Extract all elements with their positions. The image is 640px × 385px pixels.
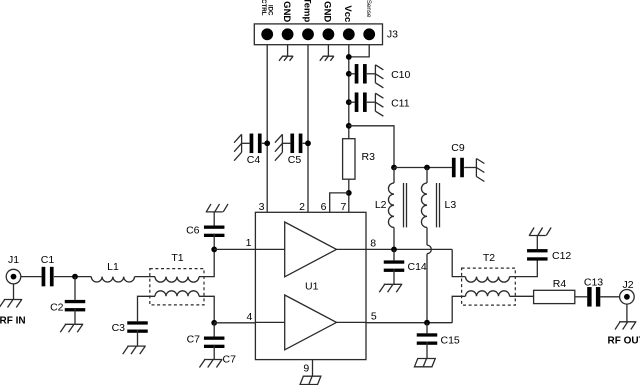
svg-text:T2: T2 (483, 252, 495, 264)
svg-text:Sense: Sense (365, 0, 372, 18)
svg-text:5: 5 (371, 310, 377, 322)
wire C2 to ground (74, 308, 76, 324)
resistor R3 (343, 139, 355, 180)
svg-text:Temp: Temp (301, 0, 312, 22)
wire ground to C6 (213, 212, 215, 226)
ground C9 (476, 159, 484, 182)
pin number 4 (246, 311, 252, 323)
svg-text:L1: L1 (107, 261, 119, 273)
wire R4 to C13 (575, 296, 587, 298)
wire to U1 pin1 (214, 248, 255, 250)
wire J1 to C1 (21, 276, 42, 278)
inductor L1 (91, 277, 134, 282)
label J1 (8, 254, 19, 266)
svg-text:CTRL: CTRL (260, 0, 267, 16)
inductor L2 (388, 183, 394, 227)
svg-text:J2: J2 (622, 279, 633, 291)
ground J3 pin2 (279, 56, 293, 61)
wire L2 to pin8 net (393, 227, 395, 249)
wire ground to C5 (282, 142, 290, 144)
label R3 (362, 151, 376, 163)
label C5 (288, 154, 302, 166)
wire to C14 (393, 249, 395, 260)
svg-text:RF IN: RF IN (0, 316, 26, 327)
svg-text:C6: C6 (186, 225, 200, 237)
ground C7 (199, 360, 222, 368)
svg-text:C5: C5 (288, 154, 302, 166)
ground C10 (375, 65, 383, 88)
label J3 (387, 29, 398, 41)
wire hop over pin8 net (427, 245, 431, 254)
J3 pin 5 (343, 28, 355, 40)
svg-text:R3: R3 (362, 151, 376, 163)
label C13 (584, 277, 603, 289)
wire to L3 coil (426, 168, 428, 184)
pin number 5 (371, 310, 377, 322)
T1 primary winding (155, 277, 199, 283)
ground U1 pin9 (300, 376, 321, 384)
inductor L3 (421, 183, 427, 227)
wire C10 to ground (367, 73, 376, 75)
label J2 (622, 279, 633, 291)
ground C15 (414, 359, 435, 367)
J3 pin 4 (323, 28, 335, 40)
wire C1 to L1 (54, 276, 91, 278)
wire U1 output B internal (337, 321, 367, 323)
wire C7 to ground (213, 345, 215, 360)
wire U1 input B internal (255, 321, 284, 323)
wire pin8 net to T2 primary (452, 249, 465, 276)
junction Sense-Vcc (346, 54, 352, 60)
U1 amplifier B (285, 295, 337, 350)
J3 pin 3 (302, 28, 314, 40)
svg-text:3: 3 (259, 201, 265, 213)
wire to C10 (349, 73, 355, 75)
wire J3 pin4 to ground (327, 45, 329, 57)
connector J1 (6, 269, 21, 284)
wire ground to C4 (242, 142, 250, 144)
capacitor C14 (384, 260, 405, 272)
wire J2 to ground (626, 304, 628, 322)
wire U1 pin9 to ground (312, 360, 314, 377)
svg-text:9: 9 (303, 363, 309, 375)
svg-text:C9: C9 (451, 142, 465, 154)
svg-text:1: 1 (246, 237, 252, 249)
label C12 (552, 250, 571, 262)
label C1 (41, 254, 55, 266)
ground J3 pin4 (320, 56, 334, 61)
svg-text:7: 7 (340, 201, 346, 213)
label L1 (107, 261, 119, 273)
svg-text:R4: R4 (553, 278, 567, 290)
transformer T1 box (150, 269, 204, 305)
wire T1 secondary to pin4 net (199, 296, 214, 323)
svg-text:C7: C7 (187, 333, 201, 345)
svg-text:GND: GND (281, 1, 292, 22)
capacitor C6 (204, 226, 225, 238)
label C6 (186, 225, 200, 237)
capacitor C4 (250, 134, 262, 154)
wire T1 secondary to C3 (138, 296, 156, 321)
svg-text:C1: C1 (41, 254, 55, 266)
label L2 (375, 199, 387, 211)
wire to L2 coil (393, 168, 395, 184)
label C11 (391, 97, 410, 109)
ground C12 (529, 228, 551, 236)
T2 primary winding (466, 277, 510, 283)
capacitor C11 (355, 92, 367, 112)
wire U1 pin6 jog (330, 193, 349, 212)
wire U1 pin8 net (366, 248, 452, 250)
wire L3 down upper (426, 227, 428, 245)
J3 pin 2 (282, 28, 294, 40)
label C3 (112, 322, 126, 334)
svg-text:C2: C2 (50, 302, 64, 314)
transformer T2 box (462, 268, 516, 305)
IC U1 body (255, 212, 366, 359)
L3 core lines (437, 183, 440, 227)
J3 pin 2 name GND (281, 1, 292, 22)
svg-text:C15: C15 (441, 335, 460, 347)
J3 pin 1 (261, 28, 273, 40)
connector J3 (254, 24, 382, 45)
pin number 3 (259, 201, 265, 213)
capacitor C9 (452, 158, 464, 178)
ground J1 (0, 300, 22, 308)
wire C9 to ground (464, 167, 476, 169)
svg-text:L2: L2 (375, 199, 387, 211)
capacitor C1 (42, 267, 54, 287)
wire J3 pin5 Vcc down to R3 (348, 45, 350, 139)
wire C11 to ground (367, 101, 376, 103)
junction pin5-L3-C15 (424, 320, 430, 326)
J3 pin 5 name Vcc (342, 5, 353, 22)
svg-text:GND: GND (322, 1, 333, 22)
wire to C11 (349, 101, 355, 103)
wire T2 secondary to R4 (510, 295, 534, 297)
junction C2 (72, 274, 78, 280)
resistor R4 (534, 290, 575, 303)
junction C10 (346, 71, 352, 77)
label C10 (391, 69, 410, 81)
U1 amplifier A (285, 222, 337, 277)
label RF OUT (608, 336, 640, 347)
J3 pin 6 name Sense (365, 0, 372, 18)
pin number 6 (321, 201, 327, 213)
label T1 (171, 252, 183, 264)
wire L1 to T1 (135, 276, 156, 278)
wire C15 to ground (426, 342, 428, 359)
svg-text:C12: C12 (552, 250, 571, 262)
ground C14 (379, 284, 402, 292)
wire J3 pin2 to ground (287, 45, 289, 57)
ground J2 (615, 322, 636, 330)
pin number 1 (246, 237, 252, 249)
pin number 7 (340, 201, 346, 213)
wire to C2 (74, 277, 76, 300)
svg-text:J1: J1 (8, 254, 19, 266)
label L3 (445, 199, 457, 211)
label C15 (441, 335, 460, 347)
wire J1 to ground (13, 284, 15, 300)
capacitor C5 (290, 134, 302, 154)
wire J3 pin1 to U1 pin3 (266, 45, 268, 213)
wire T2 primary to C12 (510, 260, 538, 277)
J3 pin 4 name GND (322, 1, 333, 22)
pin number 2 (299, 201, 305, 213)
junction pin8-L2-C14 (391, 247, 397, 253)
svg-text:Vcc: Vcc (342, 5, 353, 22)
svg-text:C14: C14 (408, 261, 427, 273)
svg-text:J3: J3 (387, 29, 398, 41)
J3 pin 1 name CTRL (260, 0, 267, 16)
wire R3 to U1 pin7 (348, 179, 350, 212)
wire C14 to ground (393, 269, 395, 285)
wire L3 to pin5 net (426, 254, 428, 323)
label C7 duplicate (223, 354, 237, 366)
ground C11 (375, 93, 383, 116)
svg-text:C11: C11 (391, 97, 410, 109)
junction pin1 net (211, 247, 217, 253)
pin number 9 (303, 363, 309, 375)
svg-text:L3: L3 (445, 199, 457, 211)
label U1 (305, 281, 319, 293)
ground C3 (123, 346, 146, 354)
label RF IN (0, 316, 26, 327)
wire C13 to J2 (600, 296, 619, 298)
svg-text:T1: T1 (171, 252, 183, 264)
label C4 (247, 154, 261, 166)
label C9 (451, 142, 465, 154)
junction pin6-pin7 (346, 190, 352, 196)
wire C6 to pin1 net (213, 234, 215, 250)
wire Vcc branch to L2 (349, 126, 394, 168)
label C14 (408, 261, 427, 273)
capacitor C12 (527, 249, 548, 260)
wire C4 to pin3 net (262, 142, 267, 144)
capacitor C15 (417, 333, 438, 345)
L2 core lines (404, 183, 407, 227)
ground C2 (60, 324, 83, 332)
label T2 (483, 252, 495, 264)
wire to C7 (213, 323, 215, 337)
capacitor C7 (204, 337, 225, 349)
svg-text:4: 4 (246, 311, 252, 323)
junction C11 (346, 99, 352, 105)
svg-text:RF OUT: RF OUT (608, 336, 640, 347)
label C2 (50, 302, 64, 314)
wire U1 input A internal (255, 248, 284, 250)
junction C4 (264, 140, 270, 146)
wire U1 pin5 net (366, 322, 452, 324)
svg-text:U1: U1 (305, 281, 319, 293)
wire J3 pin6 Sense to Vcc (349, 45, 369, 57)
wire pin5 net to T2 secondary (452, 296, 465, 322)
wire C3 to ground (137, 330, 139, 347)
svg-text:8: 8 (370, 237, 376, 249)
wire C5 to pin2 net (303, 142, 308, 144)
ground C5 (275, 134, 283, 160)
label R4 (553, 278, 567, 290)
ground C6 (206, 204, 228, 212)
label C7 (187, 333, 201, 345)
pin number 8 (370, 237, 376, 249)
junction L2 top (391, 165, 397, 171)
svg-text:2: 2 (299, 201, 305, 213)
capacitor C3 (127, 321, 148, 333)
wire to U1 pin4 (214, 322, 255, 324)
svg-text:C4: C4 (247, 154, 261, 166)
svg-text:C13: C13 (584, 277, 603, 289)
junction pin4 net (211, 320, 217, 326)
wire C12 to ground (536, 236, 538, 250)
wire to C15 (426, 323, 428, 334)
capacitor C10 (355, 64, 367, 84)
connector J2 (620, 290, 635, 305)
wire L2 top to C9 (394, 167, 452, 169)
svg-text:C7: C7 (223, 354, 237, 366)
J3 pin 1 name IDC (266, 5, 273, 16)
svg-text:C10: C10 (391, 69, 410, 81)
wire U1 output A internal (337, 248, 367, 250)
svg-text:6: 6 (321, 201, 327, 213)
T1 secondary winding (155, 291, 199, 297)
T2 secondary winding (466, 291, 510, 297)
capacitor C13 (587, 287, 600, 307)
svg-text:C3: C3 (112, 322, 126, 334)
junction Vcc branch (346, 123, 352, 129)
ground C4 (234, 134, 242, 160)
capacitor C2 (65, 300, 86, 312)
J3 pin 3 name Temp (301, 0, 312, 22)
junction L3 top (424, 165, 430, 171)
J3 pin 6 (363, 28, 375, 40)
junction C5 (305, 140, 311, 146)
wire J3 pin3 Temp to U1 pin2 (307, 45, 309, 213)
wire T1 primary to pin1 net (199, 249, 214, 276)
